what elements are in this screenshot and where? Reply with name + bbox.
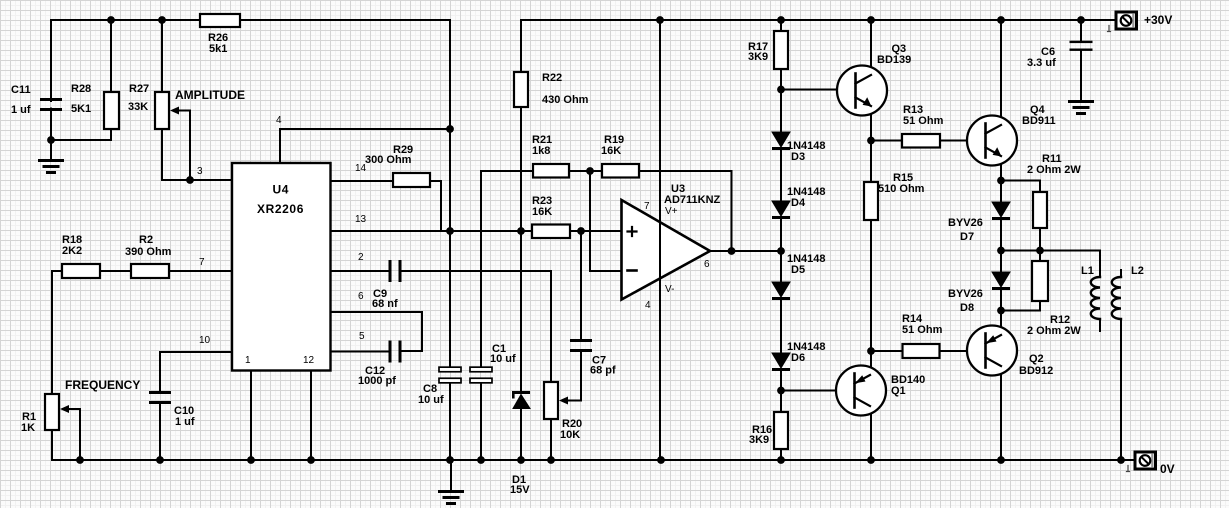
svg-text:1K: 1K [21, 422, 35, 434]
wire R27 bottom to pin 3 [162, 129, 232, 180]
svg-text:2 Ohm 2W: 2 Ohm 2W [1027, 164, 1081, 176]
wire C7 drop from + line [580, 231, 582, 340]
wire L1 bottom stub [1099, 319, 1101, 331]
svg-text:430 Ohm: 430 Ohm [542, 94, 589, 106]
wire Q1 collector to bus [870, 406, 872, 460]
op-amp + symbol [628, 227, 637, 236]
wire pin 2 to C9 [332, 270, 389, 272]
svg-text:BYV26: BYV26 [948, 217, 983, 229]
svg-text:V+: V+ [665, 206, 678, 217]
svg-text:Q1: Q1 [891, 385, 906, 397]
svg-text:1000 pf: 1000 pf [358, 375, 396, 387]
terminal +30V [1116, 12, 1137, 29]
svg-text:5K1: 5K1 [71, 103, 91, 115]
wire R23 to + input of op-amp [570, 230, 623, 232]
wire C6 top [1080, 20, 1082, 41]
svg-text:16K: 16K [601, 145, 621, 157]
capacitor C10 [149, 391, 171, 394]
resistor R14 [903, 344, 940, 358]
resistor R28 [104, 92, 119, 129]
wire minus input drop x590 [590, 171, 623, 271]
resistor R17 [774, 31, 788, 69]
wire C8 bottom to 0V bus [449, 382, 451, 461]
wire R28 top [110, 20, 112, 92]
resistor R21 [533, 164, 569, 178]
wire pin 14 to R29 [332, 180, 393, 182]
svg-text:390 Ohm: 390 Ohm [125, 246, 172, 258]
wire output node to L1 [1001, 251, 1100, 278]
wire node 310 to Q2 emitter [1000, 310, 1002, 335]
wire Q3 emitter down to R15 [870, 107, 872, 183]
potentiometer R1 FREQUENCY [45, 394, 59, 430]
wire C11 bottom to node [50, 109, 52, 141]
IC U4 XR2206 [232, 163, 331, 371]
wire R14 right to Q2 base [940, 350, 987, 352]
svg-text:1: 1 [245, 355, 251, 366]
wire pin 1 of U4 to bus [250, 370, 252, 460]
svg-text:D6: D6 [791, 352, 805, 364]
transistor Q3 BD139 [837, 66, 887, 116]
wire pin 13 / + input line [332, 230, 532, 232]
wire C10 bottom to bus [159, 403, 161, 460]
svg-text:51 Ohm: 51 Ohm [902, 324, 943, 336]
junction dots bottom bus right half [657, 456, 665, 464]
svg-text:3: 3 [197, 166, 203, 177]
svg-text:12: 12 [303, 355, 315, 366]
transistor Q1 BD140 [836, 366, 886, 416]
resistor R19 [602, 164, 639, 178]
resistor R26 [200, 14, 240, 27]
svg-text:6: 6 [704, 259, 710, 270]
wire pin 5 to C12 left [332, 351, 389, 353]
wire diode chain x781 top [780, 20, 782, 31]
junction dots top-left bus [107, 16, 115, 24]
diode D7 BYV26 [992, 202, 1010, 217]
svg-text:D5: D5 [791, 264, 805, 276]
wire R22 bottom down through junctions to D1 [520, 107, 522, 391]
wire D8 anode [1000, 251, 1002, 273]
svg-text:Q2: Q2 [1029, 353, 1044, 365]
junction dot Q3 base tee [777, 86, 785, 94]
wire Q2 collector to bus [1000, 366, 1002, 460]
junction dot pin4 tee [446, 125, 454, 133]
wire R28 bottom [51, 129, 111, 140]
junction dot node 310 [997, 307, 1005, 315]
svg-text:3K9: 3K9 [748, 51, 768, 63]
svg-text:2K2: 2K2 [62, 245, 82, 257]
capacitor C11 [40, 98, 62, 101]
svg-text:68 pf: 68 pf [590, 365, 616, 377]
wire L2 bottom to bus [1120, 319, 1122, 460]
svg-text:68 nf: 68 nf [372, 298, 398, 310]
svg-text:7: 7 [199, 257, 205, 268]
wire C6 bottom to ground [1080, 51, 1082, 101]
op-amp supply line overlay [659, 200, 661, 300]
diode D8 BYV26 [992, 272, 1010, 287]
svg-text:10 uf: 10 uf [490, 353, 516, 365]
resistor R18 [62, 264, 100, 278]
resistor R12 [1032, 261, 1048, 301]
junction dot output to diode chain [777, 247, 785, 255]
svg-text:5k1: 5k1 [209, 43, 227, 55]
wire op-amp output to diode chain [710, 250, 781, 252]
svg-text:2 Ohm 2W: 2 Ohm 2W [1027, 325, 1081, 337]
wire ground stem at bottom bus [450, 460, 452, 491]
wire R13 left [871, 140, 902, 142]
diode D6 1N4148 [772, 353, 790, 368]
wire R1 bottom [51, 430, 53, 460]
diode D5 1N4148 [772, 282, 790, 297]
wire 0V bottom bus [52, 459, 1135, 461]
wire R18 left down to R1 [51, 271, 53, 394]
wire R27 wiper [178, 111, 190, 181]
svg-text:U4: U4 [273, 183, 290, 197]
svg-text:D4: D4 [791, 197, 806, 209]
svg-text:D3: D3 [791, 151, 805, 163]
wire C1 bottom to bus [480, 382, 482, 461]
wire feedback drop to output [731, 171, 733, 251]
junction dots on + input line [446, 227, 454, 235]
wire Q3 base [781, 89, 856, 91]
wire top bus right section to +30V [521, 19, 1116, 21]
terminal 0V [1135, 452, 1156, 469]
resistor R2 [131, 264, 169, 278]
diode D3 1N4148 [772, 132, 790, 147]
svg-text:1 uf: 1 uf [175, 416, 195, 428]
wire R13 right to Q4 base [940, 140, 986, 142]
resistor R13 [902, 134, 940, 148]
svg-text:L1: L1 [1081, 265, 1094, 277]
wire D6 to R16 [780, 371, 782, 412]
junction dot feedback node [586, 167, 594, 175]
svg-text:4: 4 [645, 300, 651, 311]
ground below C11 [40, 161, 63, 173]
junction dot Q3 emitter R13 tee [867, 137, 875, 145]
wire Q4 collector to +30V bus [1000, 20, 1002, 125]
capacitor C8 [439, 367, 461, 372]
resistor R15 [864, 182, 878, 220]
junction dot output feedback [728, 247, 736, 255]
svg-text:D8: D8 [960, 302, 974, 314]
junction dot output node R11/R12 [1036, 247, 1044, 255]
ground at bottom bus [440, 492, 463, 504]
svg-text:13: 13 [355, 214, 367, 225]
wire R22 top [520, 20, 522, 72]
svg-text:R22: R22 [542, 72, 562, 84]
wire pin 10 to C10 [160, 352, 232, 392]
svg-text:3K9: 3K9 [749, 434, 769, 446]
wire pin 4 of U4 [280, 129, 450, 162]
svg-text:33K: 33K [128, 101, 148, 113]
svg-text:15V: 15V [510, 484, 530, 496]
junction dots bottom bus left half [76, 456, 84, 464]
wire pin 6 loop to C12 right [332, 312, 422, 351]
svg-text:FREQUENCY: FREQUENCY [65, 378, 140, 392]
capacitor C6 [1070, 41, 1093, 43]
op-amp U3 AD711KNZ [622, 200, 711, 300]
svg-text:BD912: BD912 [1019, 365, 1053, 377]
wire L2 top stub [1120, 270, 1122, 277]
wire D7 cathode to output node [1000, 220, 1002, 250]
wire R16 bottom to bus [780, 449, 782, 460]
capacitor C1 [470, 367, 492, 372]
capacitor C9 [389, 260, 392, 282]
wire top-left bus [51, 19, 200, 21]
junction dot C11 bottom [47, 136, 55, 144]
junction dot output node D7/D8 [997, 247, 1005, 255]
svg-text:XR2206: XR2206 [257, 202, 304, 216]
svg-text:10: 10 [199, 335, 211, 346]
resistor R29 [393, 173, 430, 187]
wire R29 right loop down to pin13 line [430, 181, 441, 231]
wire R11 bottom [1039, 228, 1041, 250]
wire R15 bottom to R14 node and Q1 [870, 220, 872, 375]
capacitor C7 [570, 339, 592, 342]
svg-text:1 uf: 1 uf [11, 104, 31, 116]
svg-text:BYV26: BYV26 [948, 288, 983, 300]
junction dots top bus right [656, 16, 664, 24]
svg-text:7: 7 [644, 201, 650, 212]
svg-text:10 uf: 10 uf [418, 394, 444, 406]
wire Q4 emitter to D7 [1000, 157, 1002, 203]
wire R26 right to corner x450 [240, 19, 450, 21]
diode D4 1N4148 [772, 201, 790, 216]
zener diode D1 15V [512, 391, 530, 394]
svg-text:300 Ohm: 300 Ohm [365, 154, 412, 166]
wire R27 top [161, 20, 163, 92]
resistor R22 [514, 72, 528, 107]
potentiometer R27 AMPLITUDE [155, 92, 169, 129]
svg-text:D7: D7 [960, 231, 974, 243]
svg-text:BD139: BD139 [877, 54, 911, 66]
svg-text:5: 5 [359, 331, 365, 342]
svg-text:3.3 uf: 3.3 uf [1027, 57, 1056, 69]
svg-text:1k8: 1k8 [532, 145, 550, 157]
wire R12 bottom to node 310 [1001, 301, 1040, 311]
svg-text:0V: 0V [1160, 462, 1175, 476]
svg-text:10K: 10K [560, 429, 580, 441]
wire D5-D6 [780, 300, 782, 353]
wire C9 right to R20 top [401, 271, 551, 382]
wire R12 top [1039, 251, 1041, 262]
junction dot R27 wiper [186, 176, 194, 184]
wire D1 anode to bus [520, 409, 522, 461]
inductor L2 [1112, 277, 1121, 319]
svg-text:R28: R28 [71, 83, 91, 95]
junction dot R14 tee [867, 347, 875, 355]
wire Q1 base [781, 390, 855, 392]
wire D3-D4 [780, 150, 782, 201]
wire D4-D5 [780, 219, 782, 282]
svg-text:+30V: +30V [1144, 13, 1172, 27]
wire D8 cathode to node 310 [1000, 290, 1002, 310]
transistor Q2 BD912 [967, 326, 1017, 376]
svg-text:16K: 16K [532, 206, 552, 218]
wire R17 bottom to D3 [780, 69, 782, 132]
svg-text:R27: R27 [129, 83, 149, 95]
svg-text:6: 6 [358, 291, 364, 302]
svg-text:AD711KNZ: AD711KNZ [664, 194, 721, 206]
inductor L1 [1091, 277, 1100, 319]
wire Q3 collector to +30V bus [870, 20, 872, 75]
svg-text:V-: V- [665, 284, 674, 295]
resistor R23 [532, 225, 570, 239]
svg-text:BD911: BD911 [1022, 115, 1056, 127]
wire pin 7 net: R18 R2 [52, 270, 232, 272]
wire x481 down to C1 [480, 171, 482, 369]
capacitor C12 [389, 341, 392, 363]
svg-text:4: 4 [276, 115, 282, 126]
transistor Q4 BD911 [967, 116, 1017, 166]
svg-text:510 Ohm: 510 Ohm [878, 183, 925, 195]
wire C11 top [50, 20, 52, 101]
junction dot Q1 base tee [777, 387, 785, 395]
svg-text:C11: C11 [11, 84, 31, 96]
wire vertical x450 (pin4 node) down to C8 [449, 20, 451, 369]
resistor R16 [774, 412, 788, 449]
wire R21 R19 feedback line y171 [481, 170, 732, 172]
wire R11 branch top [1001, 181, 1040, 193]
potentiometer R20 [544, 382, 558, 419]
svg-text:L2: L2 [1131, 265, 1144, 277]
wire op-amp supply line x660 [659, 20, 661, 460]
ground below C6 [1070, 102, 1093, 114]
svg-text:R2: R2 [139, 234, 153, 246]
wire C7 bottom to R20 wiper [567, 352, 581, 401]
junction dot Q4 emitter node [997, 177, 1005, 185]
op-amp - symbol [628, 269, 637, 272]
wire R1 wiper down to bus [68, 409, 80, 460]
wire pin 12 of U4 to bus [310, 370, 312, 460]
resistor R11 [1033, 192, 1047, 228]
wire ground stem C11 [50, 140, 52, 160]
wire R14 left [871, 350, 903, 352]
wire R20 bottom to bus [550, 419, 552, 460]
svg-text:AMPLITUDE: AMPLITUDE [175, 88, 245, 102]
svg-text:2: 2 [358, 252, 364, 263]
svg-text:51 Ohm: 51 Ohm [903, 115, 944, 127]
